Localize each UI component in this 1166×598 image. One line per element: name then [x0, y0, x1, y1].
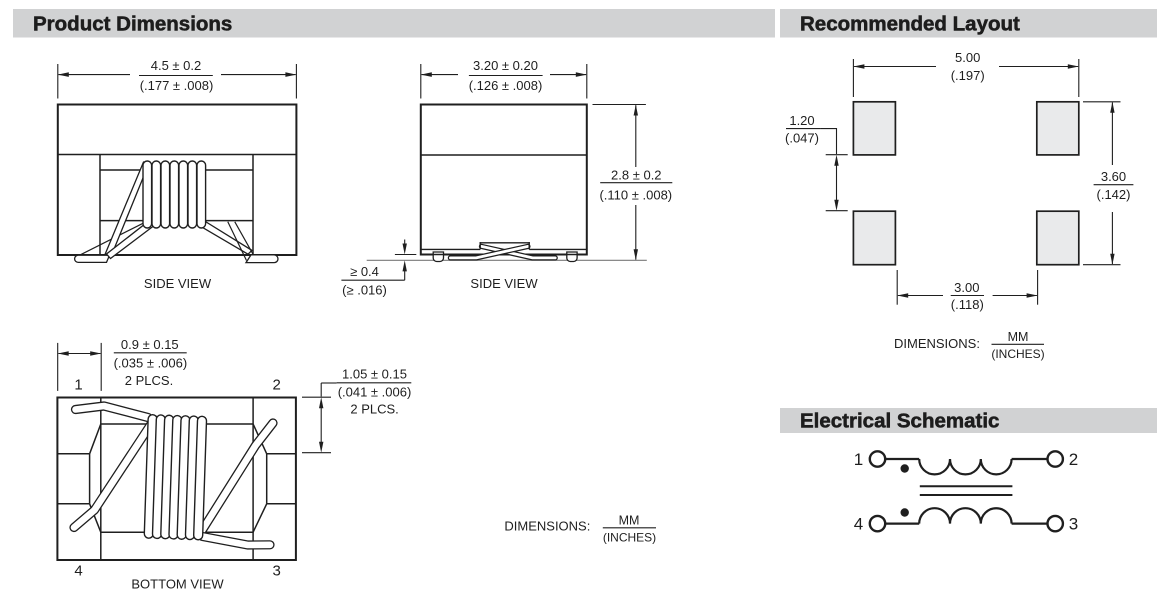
svg-text:(.118): (.118): [951, 297, 984, 312]
dimension 4.5±0.2 line with arrows: [58, 72, 297, 77]
svg-text:3.20 ± 0.20: 3.20 ± 0.20: [473, 58, 538, 73]
svg-text:(.035 ± .006): (.035 ± .006): [114, 356, 188, 371]
svg-text:(.126 ± .008): (.126 ± .008): [469, 78, 543, 93]
svg-text:3.60: 3.60: [1101, 169, 1126, 184]
dimension 3.00 extension lines: [897, 270, 1037, 305]
polarity dot primary: [901, 464, 909, 472]
dimension 3.20±0.20 text: [469, 58, 543, 93]
left wire thin line: [78, 222, 146, 256]
svg-text:1.20: 1.20: [789, 113, 814, 128]
section header: Product Dimensions bar: [13, 9, 775, 38]
dimension 1.20 text and leader: [785, 113, 821, 145]
coil (bottom view): [144, 415, 206, 540]
right foot (wire end): [246, 255, 278, 263]
left foot (wire end): [75, 255, 110, 262]
pad top-left: [853, 102, 895, 155]
left terminal notch: [57, 454, 89, 504]
svg-text:Product Dimensions: Product Dimensions: [33, 13, 232, 36]
svg-text:Electrical Schematic: Electrical Schematic: [800, 410, 999, 433]
coil (side view 1): [143, 161, 206, 228]
dimension 3.00 text: [951, 280, 984, 312]
dimension 2.8±0.2 vertical line with arrows: [634, 105, 638, 261]
svg-text:MM: MM: [1008, 330, 1029, 344]
polarity dot secondary: [901, 508, 909, 516]
dimension >=0.4 lower arrow and leader: [388, 260, 407, 280]
svg-text:(.177 ± .008): (.177 ± .008): [140, 78, 214, 93]
small foot bump left: [433, 252, 443, 262]
dimension 3.60 vertical line with arrows: [1110, 102, 1114, 265]
svg-text:SIDE VIEW: SIDE VIEW: [470, 276, 538, 291]
dimension 0.9±0.15 text: [114, 337, 188, 388]
dimension 4.5±0.2 extension lines: [58, 64, 297, 99]
dimension 3.20±0.20 line with arrows: [421, 72, 587, 77]
right wire band shallow: [195, 219, 252, 255]
svg-text:Recommended Layout: Recommended Layout: [800, 13, 1020, 36]
svg-text:(≥ .016): (≥ .016): [342, 283, 387, 298]
right wire thin lines: [228, 222, 253, 261]
svg-text:4: 4: [854, 514, 863, 533]
secondary winding arcs: [919, 508, 1011, 523]
dimension 4.5±0.2 text: [139, 58, 213, 93]
wire band to pin 1: [76, 406, 149, 418]
svg-text:2 PLCS.: 2 PLCS.: [350, 401, 398, 416]
primary winding arcs: [919, 459, 1011, 474]
svg-text:(.047): (.047): [785, 130, 819, 145]
svg-text:3.00: 3.00: [954, 280, 979, 295]
dimension 2.8±0.2 text: [599, 167, 672, 202]
svg-text:5.00: 5.00: [955, 50, 980, 65]
svg-text:0.9 ± 0.15: 0.9 ± 0.15: [121, 337, 179, 352]
seating plane line (grey): [367, 259, 647, 261]
svg-text:DIMENSIONS:: DIMENSIONS:: [894, 336, 980, 351]
svg-text:3: 3: [1069, 514, 1078, 533]
svg-text:2 PLCS.: 2 PLCS.: [125, 373, 173, 388]
svg-text:1: 1: [854, 450, 863, 469]
left wire band steep: [105, 162, 150, 257]
svg-text:MM: MM: [619, 513, 640, 527]
small foot bump right: [567, 252, 577, 262]
bottom view body outline: [57, 398, 296, 561]
dimension 3.20±0.20 extension lines: [421, 64, 587, 99]
core body outline (side view 1): [58, 105, 297, 256]
svg-text:BOTTOM VIEW: BOTTOM VIEW: [131, 577, 224, 592]
pad bottom-left: [853, 211, 895, 265]
dimension 5.00 extension lines: [853, 59, 1078, 97]
svg-text:(.041 ± .006): (.041 ± .006): [338, 384, 412, 399]
terminal 3 circle: [1048, 516, 1063, 531]
right terminal notch: [267, 454, 296, 504]
core coupling lines: [920, 486, 1013, 495]
svg-text:2: 2: [273, 376, 281, 393]
section header: Electrical Schematic bar: [780, 408, 1157, 433]
wire to terminal 2: [1012, 458, 1047, 460]
bottom plate lines: [421, 249, 587, 254]
dimension 3.00 line with arrows: [897, 293, 1037, 298]
svg-text:2.8 ± 0.2: 2.8 ± 0.2: [611, 167, 662, 182]
dimension 1.20 leader and arrows: [821, 129, 848, 211]
dimension 3.60 extension lines: [1083, 102, 1121, 265]
svg-text:2: 2: [1069, 450, 1078, 469]
dimension 1.05±0.15 vertical line with arrows: [319, 383, 337, 453]
left wire band shallow: [107, 219, 158, 259]
svg-text:DIMENSIONS:: DIMENSIONS:: [504, 518, 590, 533]
notch outline: [480, 242, 530, 249]
wire band to pin 3: [203, 537, 270, 546]
wire from terminal 4: [886, 522, 919, 524]
dimension 1.05±0.15 extension lines: [302, 397, 331, 453]
svg-text:(.142): (.142): [1097, 187, 1131, 202]
dimension 0.9±0.15 extension lines: [58, 343, 101, 391]
svg-text:SIDE VIEW: SIDE VIEW: [144, 276, 212, 291]
dimension 2.8±0.2 extension line: [593, 104, 646, 106]
svg-text:≥ 0.4: ≥ 0.4: [350, 264, 379, 279]
svg-text:1.05 ± 0.15: 1.05 ± 0.15: [342, 367, 407, 382]
dimensions note left: [504, 513, 656, 544]
wire band to pin 2: [200, 423, 274, 535]
svg-text:3: 3: [273, 562, 281, 579]
dimension 1.05±0.15 text: [337, 367, 412, 417]
svg-text:(INCHES): (INCHES): [991, 347, 1044, 361]
crossing wire to right foot: [482, 246, 556, 258]
wire from terminal 1: [886, 458, 919, 460]
pad bottom-right: [1037, 211, 1079, 265]
crossing wire to left foot: [450, 246, 528, 258]
dimensions note right: [894, 330, 1045, 361]
dimension 3.60 text: [1094, 169, 1134, 202]
terminal 4 circle: [870, 516, 885, 531]
terminal 2 circle: [1048, 451, 1063, 466]
svg-text:4: 4: [74, 562, 82, 579]
dimension >=0.4 text: [341, 264, 387, 298]
wire band to pin 4: [74, 420, 154, 528]
svg-text:(INCHES): (INCHES): [603, 531, 656, 545]
pad top-right: [1037, 102, 1079, 155]
dimension >=0.4 upper arrow: [395, 240, 416, 255]
dimension 0.9±0.15 line with arrows: [58, 351, 101, 356]
svg-text:(.110 ± .008): (.110 ± .008): [599, 188, 672, 203]
svg-text:4.5 ± 0.2: 4.5 ± 0.2: [151, 58, 202, 73]
svg-text:1: 1: [74, 376, 82, 393]
dimension 5.00 line with arrows: [853, 64, 1078, 69]
section header: Recommended Layout bar: [780, 9, 1157, 38]
svg-text:(.197): (.197): [951, 68, 985, 83]
core octagon outline: [90, 424, 267, 532]
dimension 5.00 text: [951, 50, 985, 83]
terminal 1 circle: [870, 451, 885, 466]
wire to terminal 3: [1012, 522, 1047, 524]
core body outline (side view 2): [421, 105, 587, 255]
